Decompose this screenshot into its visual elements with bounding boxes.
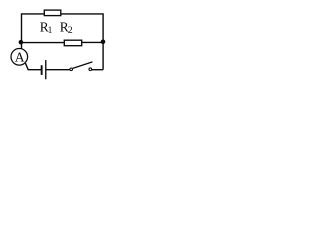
wire top-left segment <box>22 14 44 49</box>
svg-text:A: A <box>15 50 25 65</box>
wire ammeter to battery (bottom left) <box>25 63 41 69</box>
switch right contact <box>89 68 92 71</box>
wire top-right segment <box>61 14 103 70</box>
node: left junction dot <box>19 40 24 45</box>
resistor R1 <box>44 10 61 16</box>
wire middle branch right segment <box>82 41 103 43</box>
svg-text:2: 2 <box>68 26 73 36</box>
ammeter A <box>11 49 28 66</box>
wire battery to switch <box>46 69 69 71</box>
switch left contact <box>70 68 73 71</box>
battery negative short plate <box>41 65 43 75</box>
wire switch to bottom-right corner <box>92 69 103 71</box>
svg-text:1: 1 <box>48 25 53 35</box>
battery positive long plate <box>45 60 46 79</box>
node: right junction dot <box>101 40 106 45</box>
wire middle branch left segment <box>22 42 65 44</box>
switch lever <box>73 62 93 69</box>
resistor R2 <box>64 40 81 46</box>
